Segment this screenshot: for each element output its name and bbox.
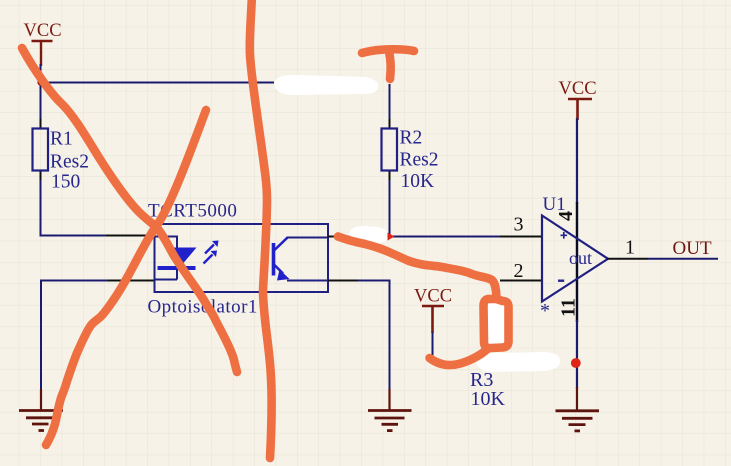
white-out blob under orange resistor (482, 301, 511, 350)
svg-text:11: 11 (558, 298, 580, 317)
svg-text:VCC: VCC (414, 287, 452, 307)
op-amp U1 (540, 194, 608, 322)
svg-text:VCC: VCC (24, 21, 62, 41)
LED emission arrows (205, 245, 214, 254)
svg-text:10K: 10K (471, 388, 506, 410)
wire VCC1 to R1 (40, 64, 42, 119)
wire junction to opamp pin3 (390, 236, 500, 238)
white-out blob over collector wire (349, 226, 389, 244)
junction at VCC1 node (37, 79, 43, 85)
svg-text:1: 1 (625, 237, 635, 259)
wire collector to junction (368, 236, 390, 238)
svg-text:Res2: Res2 (50, 152, 89, 173)
svg-text:3: 3 (514, 214, 524, 236)
wire top to R2 (389, 84, 391, 119)
pin opto cathode (108, 280, 155, 282)
wire output (648, 258, 718, 260)
junction red dot at pin3 node (388, 233, 395, 241)
white-out blob over top wire (274, 75, 378, 95)
svg-text:out: out (569, 248, 592, 268)
resistor R2 (382, 119, 439, 193)
svg-text:R2: R2 (400, 128, 423, 149)
white-out blob over R3 wire (476, 352, 560, 372)
power symbol VCC1 (24, 21, 62, 66)
wire top horizontal from VCC1 junction (41, 82, 275, 84)
LED inside optoisolator (155, 237, 219, 280)
svg-text:2: 2 (514, 260, 524, 282)
ground GND1 (19, 389, 63, 431)
svg-text:Res2: Res2 (400, 150, 439, 171)
optoisolator body (148, 201, 329, 318)
junction red dot on power line (571, 358, 581, 368)
power symbol VCC3 near R3 (414, 287, 452, 334)
orange stroke X part 1 (22, 48, 237, 372)
svg-text:10K: 10K (401, 171, 435, 192)
pin opto anode (106, 235, 155, 237)
pin opto collector (328, 236, 368, 238)
ground GND3 (556, 387, 600, 431)
power symbol VCC2 above opamp (559, 79, 597, 120)
pin 1 output (607, 258, 648, 260)
orange stroke X part 2 (46, 110, 206, 445)
wire R2 to junction (389, 180, 391, 237)
wire opto cathode to ground (41, 281, 108, 392)
svg-text:R1: R1 (50, 129, 73, 150)
wire R1 to opto anode (41, 180, 107, 236)
pin 3 of opamp (500, 236, 542, 238)
svg-text:OUT: OUT (673, 238, 712, 259)
wire VCC2 through opamp to ground (576, 118, 578, 204)
ground GND2 (368, 389, 412, 431)
phototransistor inside optoisolator (274, 238, 329, 281)
orange curve R3 to VCC3 (430, 349, 489, 366)
wire emitter to ground (358, 281, 390, 392)
pin opto emitter (328, 280, 358, 282)
orange squiggle pin2 to R3 (338, 237, 497, 300)
wire VCC3 stub (432, 332, 434, 361)
orange resistor body around R3 (484, 299, 509, 348)
orange T mark (362, 49, 414, 53)
pin 2 of opamp (500, 280, 542, 282)
svg-text:VCC: VCC (559, 79, 597, 99)
svg-text:150: 150 (51, 172, 80, 193)
orange long vertical stroke (250, 0, 272, 458)
resistor R1 (33, 119, 90, 193)
svg-text:4: 4 (555, 211, 577, 221)
svg-text:*: * (540, 300, 550, 322)
